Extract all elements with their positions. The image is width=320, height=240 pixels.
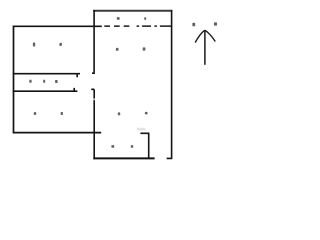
dash-dot line balcony <box>104 25 129 27</box>
wall left-block mid2 with up jamb <box>13 88 78 91</box>
wall main-right with bottom tick <box>167 10 172 158</box>
wall left-block left <box>13 26 15 134</box>
light smudge above kitchen step <box>137 128 146 131</box>
label bath char1 <box>29 80 31 83</box>
wall kitchen step <box>140 133 148 158</box>
label kitchen char1 <box>111 145 114 148</box>
wall left-block top <box>13 25 102 27</box>
north arrow shaft <box>204 31 206 65</box>
label kitchen char2 <box>131 145 133 148</box>
label bedroom1 char1 <box>33 43 35 47</box>
wall left-block bottom <box>13 132 101 134</box>
label balcony char1 <box>117 17 120 20</box>
wall main-bottom <box>93 157 154 159</box>
label compass char2 <box>214 22 217 25</box>
label dining char2 <box>145 112 148 115</box>
label bedroom1 char2 <box>59 43 62 46</box>
north arrow left arm <box>195 30 205 42</box>
label bath char3 <box>55 80 58 83</box>
label balcony char2 <box>144 17 146 19</box>
label bath char2 <box>43 80 45 83</box>
label bedroom2 char1 <box>34 112 36 115</box>
dash-dot line balcony right part <box>137 25 171 27</box>
notch light gap on main-left wall <box>93 98 95 100</box>
label living char <box>143 47 146 50</box>
label dining char1 <box>118 112 120 115</box>
wall main-left upper segment with jamb tick <box>92 10 94 73</box>
label compass char1 <box>192 23 195 27</box>
wall left-block mid1 with down jamb <box>13 74 80 78</box>
north arrow right arm <box>205 30 216 41</box>
wall main-top <box>93 10 172 12</box>
label bedroom2 char2 <box>61 112 63 115</box>
wall main-left lower segment with jamb tick <box>91 89 94 159</box>
label living char0 <box>116 48 119 51</box>
